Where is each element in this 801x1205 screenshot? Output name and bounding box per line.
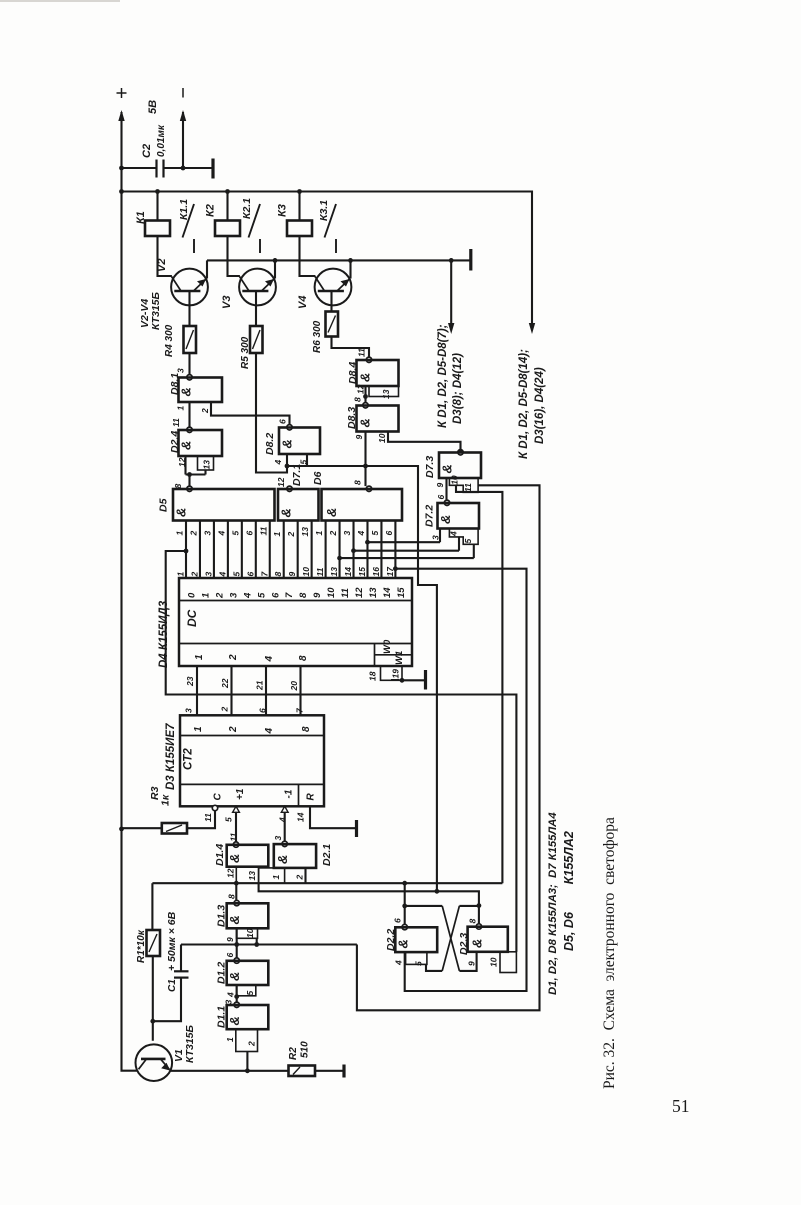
svg-text:V3: V3 <box>221 296 233 309</box>
svg-text:4: 4 <box>264 656 275 663</box>
svg-text:6: 6 <box>436 495 446 500</box>
svg-text:&: & <box>396 939 411 948</box>
svg-text:2: 2 <box>188 531 198 537</box>
resistor R5 300 <box>255 291 257 326</box>
svg-text:2: 2 <box>295 875 305 881</box>
svg-text:1к: 1к <box>160 794 172 806</box>
svg-text:КТ315Б: КТ315Б <box>150 291 162 330</box>
relay coil К2 <box>226 192 228 221</box>
svg-text:4: 4 <box>273 460 283 466</box>
svg-text:3: 3 <box>184 708 194 713</box>
svg-text:4: 4 <box>242 592 253 599</box>
wire: decoder out11 to D7.2 pin5 <box>340 557 474 559</box>
logic gate D8.4 <box>366 357 371 362</box>
svg-text:10: 10 <box>245 928 255 938</box>
ground bar (R2) <box>342 1065 345 1078</box>
svg-text:&: & <box>279 508 294 517</box>
wire: decoder column 14 <box>380 521 382 579</box>
svg-text:1: 1 <box>176 572 186 577</box>
svg-text:К1.1: К1.1 <box>178 199 190 220</box>
wire: emitter common rail <box>207 259 471 261</box>
svg-text:9: 9 <box>312 592 323 598</box>
wire: Vcc feed arrow <box>529 323 535 334</box>
svg-text:R2: R2 <box>288 1047 299 1060</box>
svg-text:D2.1: D2.1 <box>321 844 333 866</box>
svg-text:2: 2 <box>228 726 239 733</box>
logic gate D1.1 <box>234 1002 239 1007</box>
transistor V3 <box>239 269 276 306</box>
svg-text:14: 14 <box>382 587 393 598</box>
svg-text:D7.2: D7.2 <box>424 505 436 527</box>
wire: decoder out15 to D2.2 pin4 <box>395 569 526 991</box>
+1 input triangle <box>233 806 240 812</box>
wire: D2.3 pin9 from cross <box>459 952 476 971</box>
svg-text:D7.3: D7.3 <box>424 456 436 478</box>
svg-text:2: 2 <box>220 707 230 713</box>
svg-text:2: 2 <box>200 408 210 414</box>
svg-text:11: 11 <box>203 813 213 822</box>
svg-text:23: 23 <box>185 676 195 687</box>
svg-text:К3.1: К3.1 <box>318 200 330 221</box>
svg-text:6: 6 <box>278 419 288 424</box>
counter D3 К155ИЕ7 <box>180 715 324 806</box>
ground bar (R pin) <box>355 820 358 837</box>
svg-text:D3 К155ИЕ7: D3 К155ИЕ7 <box>165 723 177 790</box>
wire: D1.2 out up <box>236 945 238 958</box>
svg-text:10: 10 <box>377 433 387 443</box>
svg-text:5В: 5В <box>147 100 159 114</box>
svg-text:R5 300: R5 300 <box>240 336 251 369</box>
pin1 cell D2.1 <box>259 868 285 883</box>
wire: decoder out13 to D7.2 pin3 <box>367 541 440 543</box>
svg-text:19: 19 <box>391 669 401 679</box>
svg-text:2: 2 <box>328 531 338 537</box>
svg-text:3: 3 <box>203 572 213 577</box>
pin cells D7.2 <box>449 529 478 545</box>
svg-text:D8.3: D8.3 <box>346 407 358 429</box>
transistor V1 <box>136 1044 173 1081</box>
wire: decoder column 8 <box>297 521 299 579</box>
wire: decoder column 15 <box>394 521 396 579</box>
wire: D8.3 pin9 to D6 out <box>364 432 366 467</box>
wire: D2.2 pin5 from cross <box>426 964 442 971</box>
svg-text:&: & <box>275 855 290 864</box>
logic gate D2.4 <box>187 427 192 432</box>
svg-text:2: 2 <box>214 592 225 599</box>
wire: decoder column 2 <box>213 521 215 579</box>
svg-text:13: 13 <box>247 871 257 881</box>
terminal bar (emitter rail) <box>469 249 472 271</box>
input C circle <box>212 805 217 810</box>
svg-text:6: 6 <box>245 572 255 577</box>
svg-text:К1: К1 <box>135 211 147 224</box>
svg-text:D8.2: D8.2 <box>264 433 276 455</box>
svg-text:6: 6 <box>384 531 394 536</box>
svg-text:5: 5 <box>370 531 380 536</box>
latch line2 (Q- net) <box>259 883 479 924</box>
wire: decoder column 12 <box>352 521 354 579</box>
svg-text:9: 9 <box>467 961 477 966</box>
wire: D7.3 pin11 to osc node <box>357 485 540 1010</box>
wire: D1.1 pins to emitter line <box>246 1052 248 1071</box>
svg-text:1: 1 <box>225 1037 235 1042</box>
svg-text:C1: C1 <box>167 979 178 992</box>
svg-text:0,01мк: 0,01мк <box>156 124 167 157</box>
wire: decoder column 9 <box>311 521 313 579</box>
svg-text:4: 4 <box>449 531 459 537</box>
wire: decoder column 3 <box>227 521 229 579</box>
wire: D2.1 out to -1 <box>284 812 286 841</box>
svg-text:20: 20 <box>289 681 299 692</box>
wire: D7.3 pin9 to D7.2 out <box>445 478 447 500</box>
svg-text:КТ315Б: КТ315Б <box>184 1024 196 1063</box>
wire: strobe to ground <box>402 679 424 681</box>
svg-text:D8.1: D8.1 <box>169 373 181 395</box>
svg-text:8: 8 <box>353 480 363 485</box>
wire: spine to V1 collector <box>122 829 138 1071</box>
svg-text:&: & <box>440 464 455 473</box>
svg-text:5: 5 <box>414 961 424 966</box>
svg-text:15: 15 <box>396 587 407 598</box>
svg-text:&: & <box>227 1016 242 1025</box>
transistor V4 <box>315 269 352 306</box>
power minus terminal <box>182 88 184 98</box>
svg-text:9: 9 <box>354 435 364 440</box>
pin13 cell D8.4 <box>369 386 399 397</box>
svg-text:6: 6 <box>393 918 403 923</box>
wire: line1 to R1 <box>151 883 153 930</box>
svg-text:К2: К2 <box>205 204 217 217</box>
svg-text:13: 13 <box>300 527 310 537</box>
resistor R1* 10к <box>147 930 161 956</box>
wire: D1.3 pin10 <box>256 938 258 944</box>
logic gate D1.2 <box>234 958 239 963</box>
svg-text:4: 4 <box>216 531 226 537</box>
svg-text:C: C <box>213 793 224 801</box>
logic gate D2.2 <box>402 924 407 929</box>
svg-text:11: 11 <box>357 348 367 357</box>
svg-text:4: 4 <box>217 572 227 578</box>
svg-text:1: 1 <box>314 531 324 536</box>
svg-text:D2.4: D2.4 <box>169 431 181 453</box>
wire: +5V rail <box>122 192 533 327</box>
svg-text:D4 К155ИД3: D4 К155ИД3 <box>158 600 170 668</box>
svg-text:13: 13 <box>368 587 379 598</box>
svg-text:12: 12 <box>226 868 236 878</box>
svg-text:8: 8 <box>468 919 478 924</box>
terminal bar (C2 right) <box>211 159 214 179</box>
svg-text:5: 5 <box>230 531 240 536</box>
power plus terminal <box>117 92 127 94</box>
wire: +5V input arrow <box>120 112 122 168</box>
svg-text:R6 300: R6 300 <box>312 320 323 353</box>
resistor R4 300 <box>188 291 190 326</box>
svg-text:D6: D6 <box>312 471 324 485</box>
svg-text:D1.3: D1.3 <box>216 905 228 927</box>
svg-text:&: & <box>174 508 189 517</box>
wire: R pin to ground <box>310 806 355 828</box>
wire: C1 bottom to V1 base <box>153 978 181 1022</box>
wire: D2.1 pin2 <box>304 868 306 883</box>
svg-text:6: 6 <box>225 953 235 958</box>
svg-text:D2.2: D2.2 <box>385 929 397 951</box>
relay contact К3.1 <box>325 204 337 238</box>
svg-text:D2.3: D2.3 <box>458 933 470 955</box>
pin5 cell D1.2 <box>237 985 256 996</box>
svg-text:2: 2 <box>189 572 199 578</box>
svg-text:11: 11 <box>258 526 268 535</box>
svg-text:D1.4: D1.4 <box>214 844 226 866</box>
svg-text:4: 4 <box>356 531 366 537</box>
pin10 cell D2.3 <box>500 952 516 973</box>
svg-text:8: 8 <box>301 726 312 732</box>
svg-text:8: 8 <box>227 894 237 899</box>
wire: decoder column 11 <box>339 521 341 579</box>
svg-text:5: 5 <box>224 817 234 822</box>
svg-text:2: 2 <box>228 654 239 661</box>
svg-text:D5, D6 К155ЛА2: D5, D6 К155ЛА2 <box>562 831 576 951</box>
svg-text:+ 50мк × 6В: + 50мк × 6В <box>166 911 178 971</box>
svg-text:1: 1 <box>272 532 282 537</box>
latch line1 (Q net) <box>152 882 502 884</box>
svg-text:D1.2: D1.2 <box>216 962 228 984</box>
svg-text:D1, D2, D8 К155ЛА3; D7 К155ЛА: D1, D2, D8 К155ЛА3; D7 К155ЛА4 <box>547 812 559 995</box>
svg-text:51: 51 <box>672 1096 690 1116</box>
wire: D7.3 pin10 to latch line1 <box>456 485 502 883</box>
wire: V4 emitter riser <box>349 260 351 278</box>
svg-text:1: 1 <box>200 593 211 598</box>
capacitor C2 <box>122 167 157 169</box>
svg-text:9: 9 <box>287 572 297 577</box>
svg-text:22: 22 <box>220 678 230 689</box>
wire: decoder column 4 <box>241 521 243 579</box>
relay contact К2.1 <box>249 204 261 238</box>
svg-text:8: 8 <box>273 572 283 577</box>
svg-text:1: 1 <box>176 406 186 411</box>
svg-text:&: & <box>470 939 485 948</box>
pin10 cell D1.3 <box>237 928 258 938</box>
wire: decoder column 1 <box>199 521 201 579</box>
svg-text:10: 10 <box>301 567 311 577</box>
logic gate D2.1 <box>282 841 287 846</box>
svg-text:W0: W0 <box>382 639 393 654</box>
decoder D4 К155ИД3 <box>179 578 412 666</box>
svg-text:11: 11 <box>171 418 181 427</box>
svg-text:4: 4 <box>394 960 404 966</box>
svg-text:1: 1 <box>271 875 281 880</box>
wires: decoder inputs to counter <box>196 666 198 715</box>
svg-text:12: 12 <box>354 587 365 598</box>
svg-text:3: 3 <box>273 836 283 841</box>
svg-text:3: 3 <box>342 531 352 536</box>
wire: coil to V2 collector <box>158 236 172 276</box>
pin19 cell decoder strobe <box>381 666 403 680</box>
svg-text:13: 13 <box>202 460 212 470</box>
wire: V2 emitter riser <box>206 260 208 278</box>
svg-text:3: 3 <box>228 592 239 598</box>
logic gate D5 <box>187 486 192 491</box>
svg-text:1: 1 <box>175 531 185 536</box>
svg-text:4: 4 <box>226 992 236 998</box>
svg-text:&: & <box>324 508 339 517</box>
wire: D8.3 pin10 to D7.3 out <box>388 432 461 450</box>
svg-text:&: & <box>280 439 295 448</box>
svg-text:4: 4 <box>264 728 275 735</box>
pin cells D7.3 <box>449 478 478 492</box>
svg-text:D7.1: D7.1 <box>291 464 303 486</box>
svg-text:2: 2 <box>247 1041 257 1047</box>
svg-text:21: 21 <box>255 680 265 691</box>
pin13 cell D2.4 <box>198 456 214 470</box>
svg-text:8: 8 <box>353 397 363 402</box>
svg-text:3: 3 <box>202 531 212 536</box>
svg-text:К2.1: К2.1 <box>241 198 253 219</box>
svg-text:V4: V4 <box>297 296 309 309</box>
svg-text:11: 11 <box>463 483 473 492</box>
svg-text:6: 6 <box>270 592 281 598</box>
svg-text:8: 8 <box>298 655 309 661</box>
wire: decoder out12 to D7.2 pin4 <box>354 550 459 552</box>
svg-text:9: 9 <box>435 483 445 488</box>
svg-text:&: & <box>227 915 242 924</box>
svg-text:7: 7 <box>284 592 295 598</box>
wire: D1.4 pin12 to D1.3 out <box>235 882 237 901</box>
wire: D2.4 pins to D5 out <box>184 456 186 475</box>
svg-text:5: 5 <box>256 592 267 598</box>
logic gate D8.1 <box>187 375 192 380</box>
svg-text:12: 12 <box>356 384 366 394</box>
wire: D1.3 pin9 <box>236 928 238 944</box>
svg-text:10: 10 <box>450 475 460 485</box>
svg-text:К D1, D2, D5-D8(14);: К D1, D2, D5-D8(14); <box>518 349 530 459</box>
wire: D1.2 pin4 to D1.1 out <box>236 985 238 1002</box>
relay coil К1 <box>156 192 158 221</box>
svg-text:W1: W1 <box>394 651 405 665</box>
wire: D7.2 pin3 <box>439 529 441 543</box>
svg-text:9: 9 <box>225 937 235 942</box>
svg-text:0: 0 <box>187 592 198 598</box>
svg-text:3: 3 <box>176 368 186 373</box>
wire: V1 emitter to R2 <box>170 1070 288 1072</box>
wire: R4 to D8.1 out <box>188 353 190 374</box>
logic gate D7.1 <box>287 486 292 491</box>
resistor R3 1к <box>187 811 215 829</box>
wire: decoder column 13 <box>366 521 368 579</box>
svg-text:8: 8 <box>298 592 309 598</box>
svg-text:&: & <box>358 373 373 382</box>
wire: coil to V3 collector <box>228 236 240 276</box>
svg-text:+1: +1 <box>235 788 246 800</box>
wire: D8.1 pin1 to D2.4 out <box>188 402 190 427</box>
svg-text:5: 5 <box>245 991 255 996</box>
svg-text:CT2: CT2 <box>183 748 195 770</box>
pin5 cell D2.2 <box>406 952 427 964</box>
logic gate D1.3 <box>234 900 239 905</box>
svg-text:1: 1 <box>193 726 204 732</box>
-1 input triangle <box>281 806 288 812</box>
wire: D2.2 out to line1 <box>404 883 406 924</box>
transistor V2 <box>171 269 208 306</box>
wire: C1 top to osc node <box>180 945 182 972</box>
svg-text:12: 12 <box>276 477 286 487</box>
svg-text:R: R <box>306 793 317 801</box>
logic gate D7.2 <box>444 500 449 505</box>
wire: D8.4 pin12 to D8.3 out <box>364 386 366 403</box>
relay coil К3 <box>298 192 300 221</box>
svg-text:6: 6 <box>258 708 268 713</box>
svg-text:D3(16), D4(24): D3(16), D4(24) <box>534 367 546 444</box>
svg-text:-1: -1 <box>284 789 295 798</box>
logic gate D1.4 <box>233 842 238 847</box>
svg-text:15: 15 <box>357 567 367 577</box>
wire: R2 to ground <box>315 1070 343 1072</box>
svg-text:&: & <box>227 854 242 863</box>
svg-text:D8.4: D8.4 <box>347 362 359 384</box>
svg-text:К3: К3 <box>277 204 289 217</box>
wire: GND feed arrow <box>450 260 452 324</box>
logic gate D6 <box>366 486 371 491</box>
svg-text:11: 11 <box>340 588 351 598</box>
wire: D8.1 pin2 to D8.2 out <box>211 402 290 425</box>
svg-text:10: 10 <box>489 957 499 967</box>
svg-text:V2: V2 <box>156 259 168 272</box>
svg-text:11: 11 <box>315 567 325 576</box>
svg-text:18: 18 <box>368 671 378 681</box>
pin2 cell D1.1 <box>236 1029 258 1051</box>
wire: minus input arrow <box>182 112 184 168</box>
svg-text:Рис. 32. Схема электронного: Рис. 32. Схема электронного светофора <box>601 817 618 1089</box>
svg-text:DC: DC <box>185 609 199 627</box>
resistor R2 510 <box>289 1066 316 1077</box>
wire: decoder column 6 <box>269 521 271 579</box>
svg-text:510: 510 <box>300 1041 311 1058</box>
relay contact К1.1 <box>183 204 195 238</box>
wire: R5 to D8.2 pin4 <box>256 353 287 473</box>
svg-text:4: 4 <box>278 817 288 823</box>
wire: decoder column 0 <box>185 521 187 579</box>
svg-text:R4 300: R4 300 <box>164 324 175 357</box>
wire: decoder column 10 <box>325 521 327 579</box>
pin13 cell D1.4 <box>236 867 258 884</box>
wire: D7.2 pin4 <box>458 537 460 551</box>
wire: R6 to D8.4 out <box>332 337 370 358</box>
svg-text:D3(8); D4(12): D3(8); D4(12) <box>452 353 464 424</box>
svg-text:D1.1: D1.1 <box>216 1006 228 1028</box>
logic gate D8.3 <box>363 403 368 408</box>
svg-text:&: & <box>358 418 373 427</box>
wire: D7.2 pin5 <box>473 544 475 558</box>
svg-text:13: 13 <box>329 567 339 577</box>
wire: V3 emitter riser <box>274 260 276 278</box>
svg-text:D5: D5 <box>158 498 170 512</box>
wire: R1 to V1 base <box>152 956 154 1041</box>
svg-text:14: 14 <box>343 567 353 577</box>
svg-text:13: 13 <box>381 389 391 399</box>
wire: decoder out0 to D2.3 pin10 <box>166 551 517 952</box>
wire: D8.2 pin5 to D6 out / long feed <box>306 454 308 466</box>
svg-text:16: 16 <box>371 567 381 577</box>
svg-text:C2: C2 <box>141 144 153 158</box>
svg-text:&: & <box>438 515 453 524</box>
logic gate D2.3 <box>476 924 481 929</box>
ground bar (decoder strobes) <box>424 670 427 690</box>
oscillator node line (C1 net) <box>181 943 357 945</box>
svg-text:&: & <box>227 972 242 981</box>
svg-text:14: 14 <box>296 812 306 822</box>
wire: decoder column 7 <box>283 521 285 579</box>
svg-text:1: 1 <box>194 654 205 660</box>
latch cross wires <box>405 905 443 907</box>
